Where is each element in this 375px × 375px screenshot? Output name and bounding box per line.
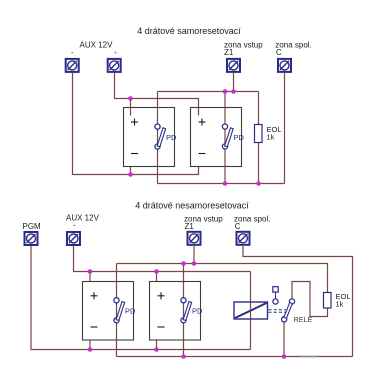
relay contact lever [284,302,293,318]
svg-text:1k: 1k [267,133,275,142]
wire zone bottom bus [158,183,285,185]
switch lever PD1 [157,128,166,147]
wire detector1 plus lead [130,99,132,116]
node zone top / Z1 [231,89,236,94]
node minus bus / PD1- [128,172,133,177]
minus mark PDA [91,326,98,328]
svg-text:Z1: Z1 [185,222,195,231]
wire detectorB plus lead [156,272,158,290]
node zone top / PDB switch [181,261,186,266]
svg-text:+: + [113,50,117,57]
wire detectorB minus lead [156,331,158,350]
wire switch through PD1 [157,108,159,167]
detector box PD B [150,282,201,341]
detectorA internals [91,282,137,341]
switch lever PDB [183,302,192,321]
svg-text:-: - [71,48,74,57]
wire switch through PDB [183,282,185,341]
node zone top / PD2 switch [223,89,228,94]
wire relay contact top to EOL2 [292,282,328,317]
wire relay coil vertical [250,272,252,350]
detector box PD1 [124,108,175,167]
terminal C (top) [278,59,291,72]
mechanical link (dashed) [269,310,287,313]
svg-text:Z1: Z1 [224,48,234,57]
minus mark PD2 [199,153,206,155]
svg-text:C: C [235,222,241,231]
wire detectorB switch vertical [183,264,185,357]
wire + lead inside PD2 [198,108,200,116]
wire detector1 minus lead [130,157,132,175]
svg-text:1k: 1k [336,300,344,309]
svg-text:PD: PD [192,307,203,316]
wire AUX- to minus bus [73,73,199,175]
wire detectorA switch vertical [116,264,118,357]
node plus bus / PDA+ [88,269,93,274]
wire switch bottom bus [117,356,353,358]
wire NO stub [275,292,277,299]
detectorB internals [158,282,204,341]
node switch bus / relay contact [282,354,287,359]
switch contact circles PD1 [155,124,160,129]
node switch bus / PDB switch [181,354,186,359]
terminal C (bottom) [237,232,250,245]
detector1 internals [131,108,178,167]
node minus bus / PDB- [154,347,159,352]
switch contact circles PD2 [222,124,227,129]
wire PGM to minus bus [31,246,251,350]
switch lever PD2 [225,128,234,147]
terminal PGM [25,232,38,245]
switch contact circles PDA [114,298,119,303]
junction dots (top diagram) [128,89,261,186]
minus mark PDB [158,326,165,328]
svg-text:RELE: RELE [294,315,313,324]
wire zone top bus [158,91,259,93]
switch contact circles PDB [181,298,186,303]
wire C lead [284,73,286,184]
wire detector1 switch vertical [157,92,159,184]
minus mark PD1 [131,153,138,155]
svg-text:4 drátové nesamoresetovací: 4 drátové nesamoresetovací [135,201,249,211]
wire EOL1 top lead [258,92,260,125]
relay contact NO stub terminal [273,287,278,292]
node minus bus / PDA- [88,347,93,352]
terminal AUX (bottom) [67,232,80,245]
resistor EOL1 [255,125,263,143]
artifact smudge on bottom bus [300,356,318,358]
plus mark PDA [91,292,98,299]
svg-text:C: C [276,48,282,57]
wire detectorA minus lead [89,331,91,350]
svg-text:AUX 12V: AUX 12V [66,214,100,223]
wire Z1 lead (bottom) [193,246,195,264]
svg-text:PD: PD [125,307,136,316]
wire zone top bus (bottom diagram) [117,264,328,293]
relay contact circles [273,299,278,304]
wire AUX to plus bus [74,246,251,272]
plus mark PD2 [199,119,206,126]
wire EOL1 bottom lead [258,143,260,184]
node plus bus / PDB+ [154,269,159,274]
junction dots (bottom diagram) [88,261,287,359]
terminal AUX+ (top) [108,59,121,72]
wire + lead inside PD1 [130,108,132,116]
terminal Z1 (top) [227,59,240,72]
svg-text:PGM: PGM [23,222,42,231]
wire crossing relay coil [250,302,252,319]
node zone bottom / EOL1 [256,181,261,186]
relay coil [234,302,268,319]
detector box PD A [83,282,134,341]
resistor EOL2 [324,293,332,309]
wire Z1 lead [233,73,235,92]
plus mark PDB [158,292,165,299]
node zone bottom / PD2 switch [223,181,228,186]
svg-text:-: - [73,221,76,230]
plus mark PD1 [131,119,138,126]
terminal AUX- (top) [66,59,79,72]
wire C lead (bottom) [243,246,353,357]
wire detectorA plus lead [89,272,91,290]
wire relay contact bottom lead [283,322,285,357]
wire detector2 switch vertical [224,92,226,184]
wire switch through PDA [116,282,118,341]
svg-text:PD: PD [166,133,177,142]
wire AUX+ to plus bus [115,73,199,116]
detector2 internals [199,108,245,167]
node zone top / Z1 (bottom) [192,261,197,266]
detector box PD2 [191,108,242,167]
switch lever PDA [116,302,125,321]
svg-text:4 drátové samoresetovací: 4 drátové samoresetovací [137,26,241,36]
terminal Z1 (bottom) [188,232,201,245]
node AUX+ / PD1+ [128,96,133,101]
svg-text:AUX 12V: AUX 12V [80,41,114,50]
wire switch through PD2 [224,108,226,167]
svg-text:PD: PD [234,133,245,142]
